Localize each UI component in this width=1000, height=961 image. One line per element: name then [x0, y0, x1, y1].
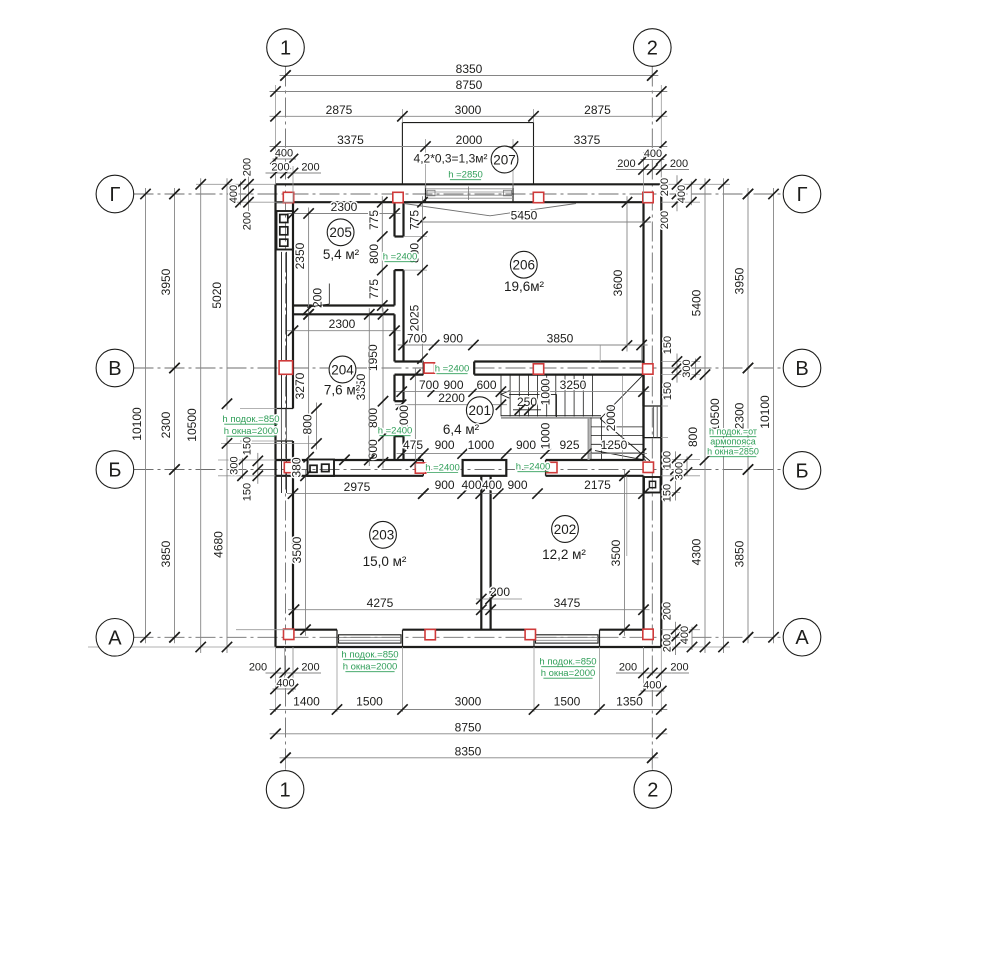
svg-text:380: 380	[290, 457, 304, 477]
svg-text:h =2850: h =2850	[448, 170, 483, 181]
svg-text:10100: 10100	[130, 407, 144, 441]
axis line 1 (vertical)	[285, 67, 287, 771]
svg-text:2300: 2300	[329, 317, 356, 331]
svg-text:Б: Б	[108, 460, 121, 482]
svg-text:1: 1	[280, 38, 291, 60]
column markers (red) on top wall	[283, 192, 293, 202]
left dim line 10500	[200, 178, 202, 653]
svg-text:775: 775	[367, 210, 381, 230]
extension lines bottom	[275, 647, 277, 712]
svg-text:3270: 3270	[293, 372, 307, 399]
extension lines bottom corners vertical	[292, 647, 294, 678]
svg-text:h подок.=850: h подок.=850	[222, 414, 279, 425]
bay window 207 outline	[402, 123, 533, 185]
svg-text:200: 200	[662, 602, 674, 620]
svg-text:200: 200	[670, 662, 688, 674]
left dim line 5020 (upper part)	[226, 178, 228, 409]
canopy lines under porch	[404, 204, 576, 216]
svg-text:5020: 5020	[210, 282, 224, 309]
svg-text:800: 800	[367, 244, 381, 264]
stairs: lower flight edge	[587, 418, 589, 460]
svg-text:200: 200	[619, 662, 637, 674]
svg-text:В: В	[108, 358, 121, 380]
svg-text:2000: 2000	[456, 133, 483, 147]
svg-text:В: В	[795, 358, 808, 380]
stairs: up arrow	[509, 393, 557, 395]
svg-text:1500: 1500	[356, 695, 383, 709]
dimension 4275/3475 rooms 203/202	[288, 609, 650, 611]
column markers (red) on axis Б	[284, 462, 294, 472]
svg-text:8750: 8750	[456, 78, 483, 92]
svg-text:2200: 2200	[438, 391, 465, 405]
svg-text:600: 600	[476, 378, 496, 392]
left dim line 800 window	[316, 403, 318, 450]
left dim line 2350/3270 inside rooms 205/204	[308, 208, 310, 321]
axis circle А left	[96, 619, 134, 657]
svg-text:3850: 3850	[547, 332, 574, 346]
svg-text:3375: 3375	[574, 133, 601, 147]
dimension 8350 (axis 1-2)	[280, 75, 659, 77]
svg-text:4275: 4275	[367, 596, 394, 610]
svg-text:h подок.=850: h подок.=850	[539, 657, 596, 668]
mini dims bottom-left corner	[266, 672, 304, 674]
svg-text:1000: 1000	[539, 422, 553, 449]
wall: exterior right	[660, 184, 662, 647]
svg-text:150: 150	[242, 437, 254, 455]
svg-text:1950: 1950	[366, 344, 380, 371]
extension line in room 202 below Б	[626, 476, 628, 556]
svg-text:200: 200	[301, 162, 319, 174]
stairs: landing edge	[501, 415, 601, 417]
svg-text:2000: 2000	[604, 404, 618, 431]
svg-text:400: 400	[679, 626, 691, 644]
extension verticals above В wall	[641, 345, 643, 362]
wall: exterior top (axis Г)	[276, 183, 662, 185]
svg-text:400: 400	[644, 148, 662, 160]
svg-text:200: 200	[659, 178, 671, 196]
dimension row 475/900/1000/900/925/1250 above Б	[397, 453, 648, 455]
axis circle 1 bottom	[266, 771, 304, 809]
svg-text:900: 900	[516, 438, 536, 452]
svg-text:1400: 1400	[293, 695, 320, 709]
left dim line 3950/2300/3850	[174, 188, 176, 643]
dimension 5450 room 206	[415, 221, 652, 223]
svg-text:6,4 м²: 6,4 м²	[443, 422, 480, 437]
svg-text:204: 204	[331, 362, 354, 377]
svg-text:200: 200	[301, 662, 319, 674]
svg-text:15,0 м²: 15,0 м²	[363, 554, 407, 569]
dimension column 775/800/2025 at corridor wall	[422, 196, 424, 364]
wall: exterior left	[274, 184, 276, 647]
svg-text:1000: 1000	[468, 438, 495, 452]
room 203 label	[370, 521, 397, 548]
svg-text:800: 800	[686, 427, 700, 447]
wall: axis Б middle segment (between doors)	[463, 460, 507, 476]
svg-text:5400: 5400	[690, 289, 704, 316]
dimension row 2875/3000/2875	[270, 115, 668, 117]
svg-text:203: 203	[372, 528, 395, 543]
dimension row 3375/2000/3375	[270, 146, 668, 148]
svg-text:250: 250	[517, 395, 537, 409]
svg-text:3475: 3475	[554, 596, 581, 610]
svg-text:200: 200	[242, 212, 254, 230]
svg-text:400: 400	[482, 478, 502, 492]
axis circle 2 top	[634, 29, 672, 67]
axis circle Г left	[96, 175, 134, 213]
svg-text:205: 205	[329, 225, 352, 240]
dimension row 900/400/400/900/2175 below Б	[417, 493, 649, 495]
svg-text:150: 150	[662, 484, 674, 502]
svg-text:19,6м²: 19,6м²	[504, 279, 545, 294]
svg-text:200: 200	[271, 162, 289, 174]
axis circle Б left	[96, 451, 134, 489]
room 204 label	[329, 356, 356, 383]
column markers (red) on axis В	[279, 361, 293, 375]
svg-text:400: 400	[228, 185, 240, 203]
svg-text:3950: 3950	[733, 267, 747, 294]
wall: axis В stub at corridor	[395, 360, 424, 362]
stairs: upper flight treads	[500, 375, 502, 417]
svg-text:12,2 м²: 12,2 м²	[542, 547, 586, 562]
svg-text:200: 200	[242, 158, 254, 176]
axis circle А right	[783, 618, 821, 656]
wall: corridor vertical wall stub above Б	[393, 436, 395, 460]
svg-text:1250: 1250	[601, 438, 628, 452]
mini dims bottom-right corner	[634, 672, 672, 674]
vent shaft on axis Б wall	[308, 460, 335, 477]
svg-text:3500: 3500	[609, 539, 623, 566]
window: left wall 800	[276, 408, 294, 410]
axis circle Г right	[783, 175, 821, 213]
svg-text:300: 300	[674, 462, 686, 480]
svg-text:400: 400	[275, 148, 293, 160]
right dim line 10100	[773, 188, 775, 643]
svg-text:10100: 10100	[758, 395, 772, 429]
svg-text:4300: 4300	[690, 538, 704, 565]
svg-text:200: 200	[670, 158, 688, 170]
window: bottom wall room 202	[533, 630, 535, 647]
svg-text:900: 900	[435, 438, 455, 452]
svg-text:4680: 4680	[212, 531, 226, 558]
extension lines top corners vertical	[275, 152, 277, 184]
svg-text:2300: 2300	[733, 402, 747, 429]
svg-text:700: 700	[419, 378, 439, 392]
svg-text:h =2400: h =2400	[378, 426, 413, 437]
wall: exterior bottom (axis А)	[276, 646, 662, 648]
svg-text:400: 400	[276, 678, 294, 690]
svg-text:Б: Б	[795, 460, 808, 482]
svg-text:h окна=2850: h окна=2850	[707, 447, 759, 457]
svg-text:3950: 3950	[159, 268, 173, 295]
dim 3350 room 204 right	[368, 308, 370, 466]
svg-text:150: 150	[662, 336, 674, 354]
axis line В (horizontal)	[134, 367, 784, 369]
svg-text:2975: 2975	[344, 480, 371, 494]
extension lines top	[285, 67, 287, 79]
wall: axis Б right segment	[546, 459, 644, 461]
svg-text:475: 475	[403, 438, 423, 452]
window: bottom wall room 203	[336, 630, 338, 647]
svg-text:h =2400: h =2400	[516, 462, 551, 473]
axis line А (horizontal)	[134, 636, 784, 638]
svg-text:3850: 3850	[159, 540, 173, 567]
svg-text:2: 2	[647, 779, 658, 801]
wall: divider rooms 204/205	[293, 304, 395, 306]
svg-text:h окна=2000: h окна=2000	[541, 668, 596, 679]
svg-text:4,2*0,3=1,3м²: 4,2*0,3=1,3м²	[414, 152, 488, 166]
room 205 label	[327, 219, 354, 246]
svg-text:900: 900	[507, 478, 527, 492]
svg-text:207: 207	[493, 152, 516, 167]
dimension 3600 room 206 right	[626, 196, 628, 351]
wall: corridor vertical wall lower (В to door)	[393, 375, 395, 402]
svg-text:h окна=2000: h окна=2000	[224, 426, 279, 437]
svg-text:800: 800	[301, 414, 315, 434]
svg-text:1: 1	[280, 779, 291, 801]
svg-text:h =2400: h =2400	[425, 462, 460, 473]
dims 150/300/150 left of Б outside wall	[257, 453, 259, 484]
svg-text:3250: 3250	[560, 378, 587, 392]
svg-text:900: 900	[443, 378, 463, 392]
dimension row above В wall 700/900/3850	[398, 344, 648, 346]
svg-text:775: 775	[408, 210, 422, 230]
dimension 2300 room 205	[287, 213, 401, 215]
right mini dims at В	[676, 354, 678, 383]
svg-text:8350: 8350	[456, 62, 483, 76]
window: top wall 2000	[425, 184, 427, 202]
axis circle Б right	[783, 452, 821, 490]
svg-text:2: 2	[647, 38, 658, 60]
svg-text:150: 150	[662, 382, 674, 400]
svg-text:201: 201	[469, 403, 492, 418]
column markers (red) on axis А	[284, 629, 294, 639]
svg-text:2875: 2875	[326, 103, 353, 117]
dimension 2300 room 204	[287, 330, 401, 332]
extension at corridor door caps	[404, 236, 428, 238]
svg-text:Г: Г	[109, 184, 120, 206]
dim chain 1950/800/600 left of corridor wall	[382, 308, 384, 468]
right dim line 10500	[723, 178, 725, 653]
svg-text:2025: 2025	[408, 304, 422, 331]
dimension 8350 bottom	[280, 757, 659, 759]
dimension row 1400/1500/3000/1500/1350	[270, 709, 668, 711]
room 207 label	[491, 146, 518, 173]
vent shaft in left wall below Г	[277, 211, 294, 250]
svg-text:2875: 2875	[584, 103, 611, 117]
svg-text:200: 200	[249, 662, 267, 674]
svg-text:8750: 8750	[455, 720, 482, 734]
svg-text:h =2400: h =2400	[435, 364, 470, 375]
mini dims top-left corner 400/200/200	[273, 158, 297, 160]
right mini dims at Б	[675, 451, 677, 500]
svg-text:400: 400	[643, 680, 661, 692]
dimension 3500 room 202	[624, 470, 626, 636]
stairs: diagonal cut lines	[600, 375, 643, 419]
svg-text:200: 200	[617, 158, 635, 170]
svg-text:900: 900	[443, 332, 463, 346]
svg-text:200: 200	[662, 634, 674, 652]
svg-text:h окна=2000: h окна=2000	[343, 662, 398, 673]
svg-text:900: 900	[435, 478, 455, 492]
mini dims top-right corner vertical	[676, 175, 678, 211]
dimension 3500 room 203	[305, 470, 307, 636]
svg-text:150: 150	[242, 483, 254, 501]
svg-text:400: 400	[676, 185, 688, 203]
svg-text:3000: 3000	[455, 103, 482, 117]
room 201 label	[466, 397, 493, 424]
axis circle В right	[783, 349, 821, 387]
svg-text:3375: 3375	[337, 133, 364, 147]
svg-text:3500: 3500	[290, 536, 304, 563]
svg-text:775: 775	[367, 279, 381, 299]
svg-text:h подок.=от: h подок.=от	[709, 427, 757, 437]
axis circle 2 bottom	[634, 771, 672, 809]
vent shaft in right wall below Б	[644, 477, 661, 493]
axis line 2 (vertical)	[651, 67, 653, 771]
wall: axis В interior wall (room 206 south)	[474, 360, 643, 362]
svg-text:200: 200	[659, 211, 671, 229]
svg-text:7,6 м²: 7,6 м²	[324, 383, 361, 398]
svg-text:100: 100	[662, 451, 674, 469]
svg-text:А: А	[795, 627, 809, 649]
mini dims top-left corner vertical	[248, 175, 250, 211]
svg-text:2175: 2175	[584, 478, 611, 492]
svg-text:Г: Г	[797, 184, 808, 206]
svg-text:h подок.=850: h подок.=850	[341, 650, 398, 661]
right dim line 5400/4300	[704, 178, 706, 653]
svg-text:300: 300	[681, 359, 693, 377]
dimension 2000 corridor wall lower	[414, 369, 416, 468]
extension lines left horizontals	[196, 183, 276, 185]
svg-text:2300: 2300	[331, 200, 358, 214]
svg-text:300: 300	[229, 456, 241, 474]
svg-text:3600: 3600	[611, 269, 625, 296]
mini dims top-right corner 400/200/200	[641, 159, 665, 161]
svg-text:1500: 1500	[554, 695, 581, 709]
wall: axis Б left segment	[276, 459, 308, 461]
svg-text:h =2400: h =2400	[383, 252, 418, 263]
svg-text:400: 400	[461, 478, 481, 492]
dimension 8750 top	[270, 91, 668, 93]
axis circle В left	[96, 349, 134, 387]
svg-text:10500: 10500	[185, 408, 199, 442]
axis line Г (horizontal)	[134, 193, 784, 195]
dimension row below В wall 700/900/600/3250	[396, 391, 650, 393]
axis line tick marks	[169, 189, 179, 199]
wall: corridor vertical wall upper (rooms 205/206)	[393, 202, 395, 236]
room 202 label	[552, 516, 579, 543]
svg-text:700: 700	[407, 332, 427, 346]
svg-text:1350: 1350	[616, 695, 643, 709]
wall: corridor vertical wall middle	[393, 270, 395, 305]
wall: partition rooms 203/202	[480, 476, 482, 630]
axis line Б (horizontal)	[134, 469, 784, 471]
dimension 8750 bottom	[270, 733, 668, 735]
extension lines right horizontals	[661, 183, 730, 185]
svg-text:5450: 5450	[511, 209, 538, 223]
right mini dims at А	[675, 622, 677, 655]
svg-text:2350: 2350	[293, 242, 307, 269]
svg-text:3000: 3000	[455, 695, 482, 709]
svg-text:3850: 3850	[733, 540, 747, 567]
left dim line 4680	[226, 437, 228, 653]
svg-text:925: 925	[559, 438, 579, 452]
dim chain 775/800/775 left of corridor wall	[381, 196, 383, 311]
svg-text:8350: 8350	[455, 744, 482, 758]
axis circle 1 top	[267, 29, 305, 67]
svg-text:202: 202	[554, 522, 577, 537]
stairs: return flight treads	[591, 426, 644, 428]
room 206 label	[510, 251, 537, 278]
window: right wall	[644, 405, 662, 407]
left dim line 10100	[145, 188, 147, 643]
svg-text:армопояса: армопояса	[710, 437, 755, 447]
svg-text:А: А	[108, 627, 122, 649]
vent duct lines in left wall	[281, 252, 283, 361]
svg-text:1000: 1000	[539, 378, 553, 405]
svg-text:206: 206	[513, 258, 536, 273]
dimension 2200 corridor	[395, 404, 507, 406]
svg-text:2300: 2300	[159, 411, 173, 438]
svg-text:5,4 м²: 5,4 м²	[323, 247, 360, 262]
dimension 2975 below Б left	[287, 493, 429, 495]
right dim line 3950/2300/3850	[747, 188, 749, 643]
